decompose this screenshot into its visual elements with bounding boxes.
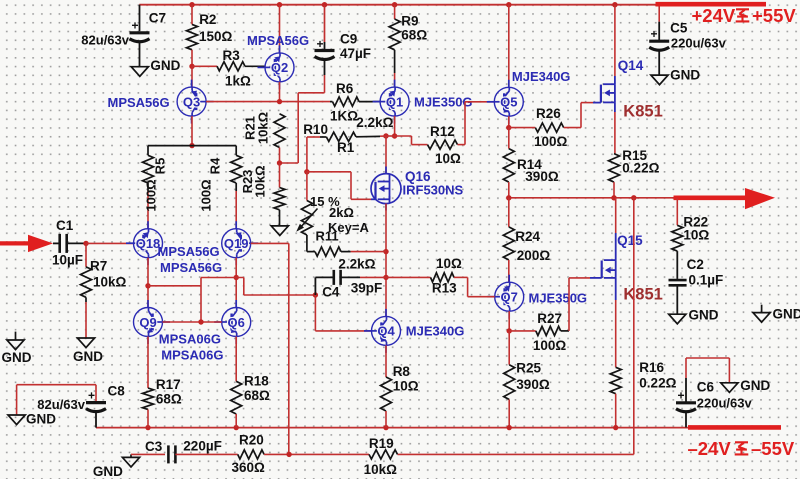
resistor R23: [279, 163, 281, 188]
svg-text:+55V: +55V: [752, 5, 796, 26]
resistor R21: [274, 114, 285, 148]
capacitor C3: [131, 453, 165, 455]
svg-text:R18: R18: [244, 374, 269, 389]
wire Q9/Q6 base link: [163, 321, 222, 323]
ground C8: [8, 415, 25, 425]
node Q2/R21 junction: [277, 99, 282, 104]
svg-text:C7: C7: [149, 11, 166, 26]
svg-text:Q19: Q19: [224, 236, 249, 251]
wire -V thick bar: [688, 425, 781, 430]
wire C9 to bias node: [324, 75, 326, 93]
wire Q2 emitter to rail: [279, 5, 281, 53]
capacitor C2: [676, 251, 678, 279]
svg-text:K851: K851: [623, 103, 662, 121]
svg-text:GND: GND: [740, 378, 770, 393]
transistor Q4: [372, 316, 401, 345]
svg-text:82u/63v: 82u/63v: [37, 397, 85, 412]
node output arrow: [674, 196, 748, 201]
ground R7: [77, 338, 94, 348]
svg-text:Q4: Q4: [377, 324, 395, 339]
node feedback junction: [286, 452, 291, 457]
resistor R19: [369, 450, 398, 459]
transistor Q14: [600, 85, 602, 103]
svg-text:MPSA06G: MPSA06G: [161, 348, 223, 363]
potentiometer R11: [306, 172, 308, 201]
svg-text:R12: R12: [430, 124, 455, 139]
svg-text:0.22Ω: 0.22Ω: [622, 161, 659, 176]
capacitor C8: [17, 384, 96, 386]
svg-text:100Ω: 100Ω: [144, 179, 159, 211]
resistor R8: [385, 345, 387, 377]
resistor R20: [175, 453, 237, 455]
svg-text:47µF: 47µF: [340, 46, 371, 61]
transistor Q3: [177, 87, 206, 116]
svg-text:+: +: [678, 389, 685, 403]
resistor R9: [394, 5, 396, 19]
capacitor C7: [139, 5, 141, 32]
svg-text:R20: R20: [239, 433, 264, 448]
svg-text:R13: R13: [432, 281, 457, 296]
svg-text:10Ω: 10Ω: [436, 256, 462, 271]
svg-text:39pF: 39pF: [351, 280, 383, 295]
svg-text:R3: R3: [223, 48, 241, 63]
svg-text:Q5: Q5: [500, 95, 517, 110]
svg-text:Q14: Q14: [618, 58, 644, 73]
svg-text:R6: R6: [336, 81, 354, 96]
svg-text:+: +: [317, 37, 324, 51]
svg-text:R27: R27: [537, 311, 562, 326]
svg-text:GND: GND: [689, 308, 719, 323]
svg-text:10Ω: 10Ω: [435, 151, 461, 166]
resistor R12: [395, 135, 412, 137]
svg-text:Q2: Q2: [271, 60, 288, 75]
transistor Q7: [495, 282, 524, 311]
wire Q1 collector: [394, 116, 396, 136]
svg-text:10kΩ: 10kΩ: [255, 112, 270, 144]
svg-text:10µF: 10µF: [52, 253, 83, 268]
transistor Q2: [265, 53, 294, 82]
transistor Q15: [601, 261, 603, 279]
capacitor C5: [658, 6, 660, 22]
svg-text:150Ω: 150Ω: [199, 29, 233, 44]
transistor Q5: [494, 87, 523, 116]
resistor R15: [609, 154, 620, 183]
svg-text:0.22Ω: 0.22Ω: [639, 376, 676, 391]
ground C3: [130, 454, 132, 457]
resistor R3: [192, 65, 217, 67]
svg-text:R10: R10: [303, 122, 328, 137]
resistor R14: [508, 128, 510, 149]
capacitor C9: [324, 5, 326, 42]
wire Q16 source column: [385, 204, 387, 317]
svg-text:IRF530NS: IRF530NS: [403, 183, 464, 198]
transistor Q19: [222, 229, 251, 258]
svg-text:0.1µF: 0.1µF: [689, 273, 724, 288]
svg-text:+: +: [651, 27, 658, 41]
svg-text:220u/63v: 220u/63v: [697, 396, 753, 411]
wire R5/R4 header: [148, 145, 236, 147]
resistor R27: [509, 330, 536, 332]
resistor R5: [147, 146, 149, 156]
svg-text:GND: GND: [150, 58, 180, 73]
svg-text:R16: R16: [639, 360, 664, 375]
resistor R7: [85, 243, 87, 267]
svg-text:–55V: –55V: [751, 438, 795, 459]
wire Q14 source: [614, 102, 616, 112]
svg-text:GND: GND: [670, 68, 700, 83]
wire Q16 drain: [385, 136, 387, 174]
wire Q19 base feedback: [251, 242, 289, 244]
ground floating right: [761, 305, 763, 313]
node R2/R3 junction: [189, 64, 194, 69]
svg-text:100Ω: 100Ω: [533, 338, 567, 353]
svg-text:C2: C2: [687, 257, 704, 272]
svg-text:C1: C1: [56, 218, 74, 233]
svg-text:Q3: Q3: [183, 94, 200, 109]
wire +V thick bar: [656, 2, 767, 7]
svg-text:R8: R8: [393, 364, 411, 379]
svg-text:GND: GND: [93, 464, 123, 479]
svg-text:MPSA56G: MPSA56G: [160, 260, 222, 275]
resistor R4: [235, 146, 237, 156]
ground C5: [651, 75, 668, 85]
ground C7: [131, 67, 148, 77]
resistor R13: [386, 276, 431, 278]
resistor R6: [333, 97, 360, 106]
ground input: [15, 332, 17, 340]
svg-text:MJE340G: MJE340G: [512, 69, 571, 84]
transistor Q9: [134, 308, 163, 337]
svg-text:R7: R7: [90, 259, 107, 274]
resistor R11 series: [307, 251, 315, 253]
svg-text:1KΩ: 1KΩ: [330, 109, 358, 124]
svg-text:GND: GND: [26, 412, 56, 427]
ground C6: [686, 357, 729, 359]
wire Q2 collector: [279, 82, 281, 102]
ground C2: [669, 314, 686, 324]
node rail junctions: [189, 2, 194, 7]
svg-text:R19: R19: [369, 436, 394, 451]
svg-text:MPSA56G: MPSA56G: [247, 33, 309, 48]
svg-text:R9: R9: [401, 14, 418, 29]
svg-text:–24V: –24V: [688, 438, 732, 459]
svg-text:2kΩ: 2kΩ: [329, 205, 354, 220]
wire Q15 source: [615, 278, 617, 300]
svg-text:MPSA06G: MPSA06G: [159, 332, 221, 347]
svg-text:C3: C3: [145, 439, 163, 454]
svg-text:MJE340G: MJE340G: [406, 324, 465, 339]
wire R10 left to bias node: [306, 137, 308, 172]
svg-text:100Ω: 100Ω: [199, 179, 214, 211]
resistor R10: [307, 136, 320, 138]
svg-text:MJE350G: MJE350G: [529, 291, 588, 306]
svg-text:R25: R25: [516, 361, 541, 376]
capacitor C4: [332, 270, 335, 285]
svg-text:GND: GND: [2, 350, 32, 365]
svg-text:MJE350G: MJE350G: [414, 95, 473, 110]
svg-text:R1: R1: [337, 140, 355, 155]
resistor R2: [191, 5, 193, 25]
transistor Q16: [371, 174, 401, 204]
resistor R18: [235, 337, 237, 382]
svg-text:C4: C4: [322, 285, 340, 300]
wire -V bus: [96, 427, 688, 429]
svg-text:R2: R2: [199, 12, 216, 27]
svg-text:R17: R17: [156, 377, 181, 392]
wire Q16 gate: [307, 171, 351, 173]
wire Q3 collector: [191, 116, 193, 146]
capacitor C6: [685, 358, 687, 378]
svg-text:GND: GND: [773, 307, 800, 322]
transistor Q18: [134, 229, 163, 258]
svg-text:C5: C5: [670, 21, 688, 36]
wire mirror staircase: [148, 285, 201, 287]
svg-text:68Ω: 68Ω: [156, 392, 182, 407]
svg-text:+: +: [88, 389, 95, 403]
svg-text:68Ω: 68Ω: [401, 28, 427, 43]
svg-text:Q7: Q7: [501, 290, 518, 305]
svg-text:390Ω: 390Ω: [525, 169, 559, 184]
resistor R25: [508, 331, 510, 365]
svg-text:C9: C9: [340, 32, 357, 47]
svg-text:10Ω: 10Ω: [393, 379, 419, 394]
svg-text:2.2kΩ: 2.2kΩ: [356, 115, 393, 130]
node R5/R4 header junction: [189, 143, 194, 148]
svg-text:2.2kΩ: 2.2kΩ: [338, 257, 375, 272]
svg-text:Q6: Q6: [228, 315, 245, 330]
wire Q14 drain: [614, 5, 616, 76]
wire Q7 emitter junction: [508, 311, 510, 331]
resistor R26: [509, 127, 536, 129]
svg-text:R11: R11: [316, 229, 339, 244]
svg-text:10kΩ: 10kΩ: [253, 165, 268, 197]
transistor Q6: [222, 308, 251, 337]
resistor R16: [610, 367, 621, 393]
svg-text:68Ω: 68Ω: [244, 388, 270, 403]
svg-text:220u/63v: 220u/63v: [671, 36, 727, 51]
svg-text:Q1: Q1: [386, 94, 403, 109]
capacitor C1: [53, 242, 60, 244]
resistor R17: [147, 337, 149, 389]
svg-text:200Ω: 200Ω: [517, 248, 551, 263]
svg-text:100Ω: 100Ω: [534, 134, 568, 149]
transistor Q1: [380, 87, 409, 116]
wire input to Q18: [83, 241, 88, 246]
wire +V rail: [139, 4, 656, 6]
svg-text:Q9: Q9: [139, 315, 156, 330]
svg-text:+: +: [132, 19, 139, 33]
svg-text:R26: R26: [536, 106, 561, 121]
svg-text:10kΩ: 10kΩ: [364, 462, 398, 477]
wire Q5 emitter to rail: [508, 5, 510, 88]
svg-text:R5: R5: [153, 158, 168, 175]
svg-text:1kΩ: 1kΩ: [225, 74, 251, 89]
node input arrow: [0, 241, 30, 245]
svg-text:10kΩ: 10kΩ: [93, 275, 127, 290]
svg-text:360Ω: 360Ω: [232, 460, 266, 475]
svg-text:MPSA56G: MPSA56G: [108, 95, 170, 110]
svg-text:220µF: 220µF: [183, 439, 222, 454]
svg-text:82u/63v: 82u/63v: [81, 33, 129, 48]
wire Q5 collector: [508, 116, 510, 127]
wire Q18 collector: [147, 258, 149, 308]
wire C4 left to Q4 base: [315, 276, 333, 278]
wire Q3 emitter: [191, 66, 193, 87]
ground R23: [271, 226, 288, 236]
svg-text:C6: C6: [697, 380, 715, 395]
resistor R24: [508, 198, 510, 227]
wire Q3 base row: [206, 101, 330, 103]
svg-text:Q15: Q15: [617, 233, 643, 248]
node R21/R23 junction: [277, 160, 282, 165]
resistor R22: [676, 198, 678, 226]
wire output node: [509, 197, 675, 199]
svg-text:K851: K851: [623, 286, 662, 304]
svg-text:MPSA56G: MPSA56G: [158, 244, 220, 259]
svg-text:390Ω: 390Ω: [516, 377, 550, 392]
svg-text:+24V: +24V: [692, 5, 736, 26]
svg-text:R4: R4: [208, 157, 223, 174]
svg-text:C8: C8: [108, 384, 126, 399]
svg-text:R24: R24: [515, 229, 540, 244]
wire Q15 drain: [615, 233, 617, 260]
svg-text:10Ω: 10Ω: [683, 228, 709, 243]
wire output to R19 feedback: [633, 198, 635, 455]
wire Q19 collector: [235, 258, 237, 308]
svg-text:GND: GND: [73, 349, 103, 364]
